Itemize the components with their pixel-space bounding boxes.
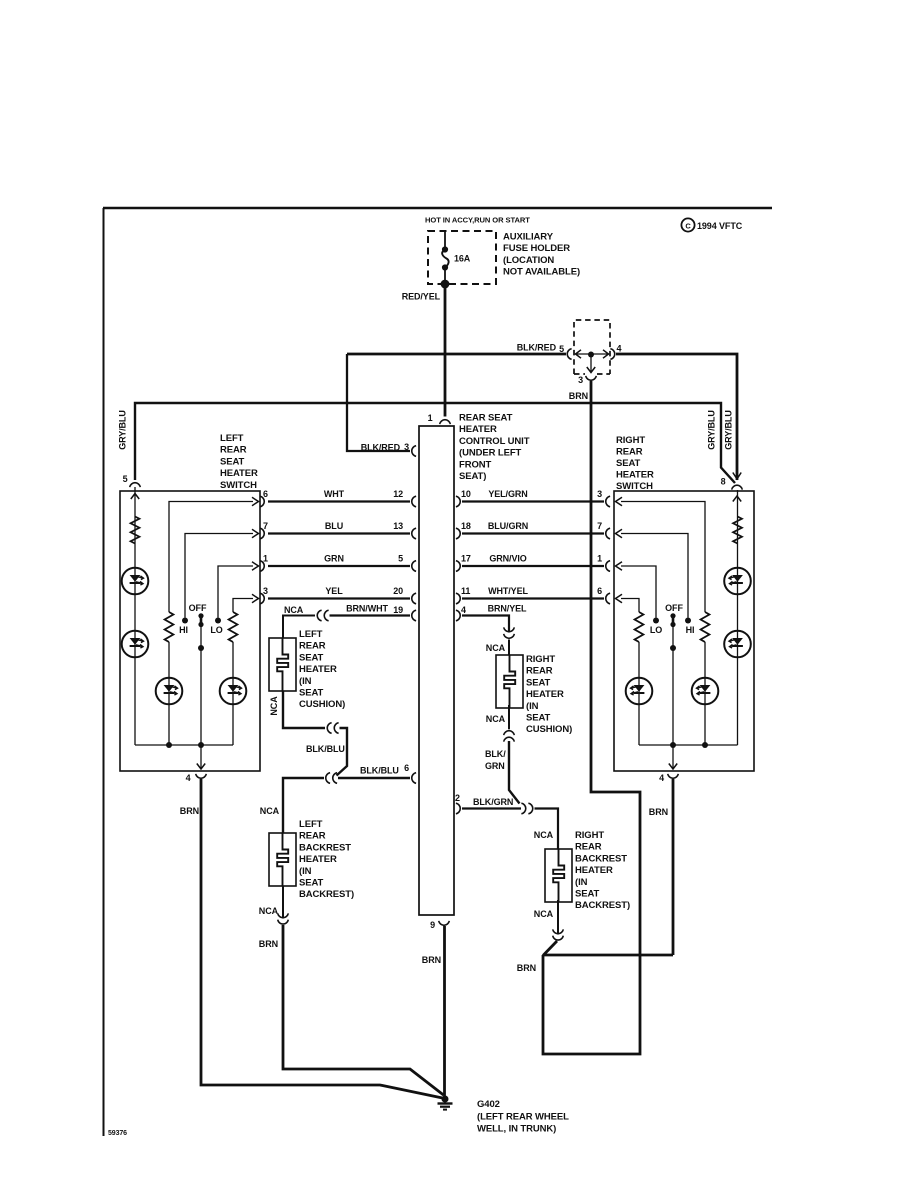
svg-text:18: 18 xyxy=(461,521,471,531)
resistor left switch HI branch xyxy=(165,612,174,642)
wire BRN diagonal to backrest connector xyxy=(543,941,557,956)
pigtail connector right backrest xyxy=(553,929,564,933)
right rear backrest heater box xyxy=(545,849,572,902)
svg-text:7: 7 xyxy=(597,521,602,531)
svg-text:BLK/BLU: BLK/BLU xyxy=(306,744,345,754)
svg-text:13: 13 xyxy=(393,521,403,531)
svg-text:BLK/RED: BLK/RED xyxy=(361,443,401,453)
left switch pin 4 exit xyxy=(200,745,202,769)
svg-text:NCA: NCA xyxy=(534,830,554,840)
right rear seat heater switch box xyxy=(614,491,754,771)
svg-text:NCA: NCA xyxy=(260,806,280,816)
svg-text:FRONT: FRONT xyxy=(459,459,492,470)
svg-text:RIGHT: RIGHT xyxy=(575,830,604,841)
svg-text:YEL: YEL xyxy=(325,586,343,596)
svg-text:OFF: OFF xyxy=(189,603,207,613)
svg-text:17: 17 xyxy=(461,554,471,564)
right switch branch wire lower xyxy=(621,599,639,613)
svg-text:REAR: REAR xyxy=(616,447,643,458)
svg-text:BRN: BRN xyxy=(517,963,536,973)
svg-text:BLK/BLU: BLK/BLU xyxy=(360,766,399,776)
fuse 16A xyxy=(444,231,446,249)
svg-text:CUSHION): CUSHION) xyxy=(526,724,572,735)
svg-text:12: 12 xyxy=(393,489,403,499)
svg-text:BRN: BRN xyxy=(649,807,668,817)
svg-text:3: 3 xyxy=(578,375,583,385)
svg-text:(UNDER LEFT: (UNDER LEFT xyxy=(459,448,522,459)
svg-text:GRY/BLU: GRY/BLU xyxy=(118,410,128,449)
wire BLK/RED vertical to pin 3 of control unit xyxy=(347,354,410,451)
wire WHT/YEL control unit pin 11 to right switch pin 6 xyxy=(462,597,604,599)
right switch OFF pole xyxy=(670,613,675,618)
svg-text:1: 1 xyxy=(597,554,602,564)
svg-text:SEAT: SEAT xyxy=(526,677,551,688)
svg-text:WHT: WHT xyxy=(324,489,345,499)
svg-text:(IN: (IN xyxy=(299,866,312,877)
wire GRN/VIO control unit pin 17 to right switch pin 1 xyxy=(462,565,604,567)
svg-text:LEFT: LEFT xyxy=(299,629,323,640)
svg-text:HEATER: HEATER xyxy=(299,664,337,675)
node LO contact xyxy=(215,618,221,624)
svg-text:HI: HI xyxy=(179,625,188,635)
wire GRY/BLU from left switch pin 5 across xyxy=(135,403,735,483)
svg-text:REAR SEAT: REAR SEAT xyxy=(459,413,513,424)
wire BRN horizontal to right switch pin 4 wire xyxy=(543,954,673,957)
wire corner to left backrest heater xyxy=(283,778,324,833)
wire below left backrest heater xyxy=(282,886,284,918)
svg-text:1994 VFTC: 1994 VFTC xyxy=(697,221,743,231)
svg-text:C: C xyxy=(685,222,691,231)
ground node G402 xyxy=(442,1096,449,1103)
junction node bus right A xyxy=(702,742,708,748)
wire NCA from left seat heater xyxy=(283,616,315,639)
svg-text:CONTROL UNIT: CONTROL UNIT xyxy=(459,436,530,447)
svg-text:BLK/GRN: BLK/GRN xyxy=(473,797,513,807)
border frame left edge xyxy=(103,208,105,1136)
svg-text:NCA: NCA xyxy=(486,643,506,653)
LED left switch main upper xyxy=(122,568,149,595)
left switch LO contact wire xyxy=(218,566,253,618)
wire BLU left switch pin 7 to control unit pin 13 xyxy=(268,532,410,534)
right switch branch wire upper xyxy=(621,502,705,613)
svg-text:G402: G402 xyxy=(477,1099,500,1110)
svg-text:REAR: REAR xyxy=(220,445,247,456)
in-line connector BRN/WHT xyxy=(317,610,321,621)
svg-text:6: 6 xyxy=(404,763,409,773)
LED right switch main lower xyxy=(724,631,751,658)
wire below branch B resistor xyxy=(638,642,640,745)
wire YEL left switch pin 3 to control unit pin 20 xyxy=(268,597,410,599)
svg-text:AUXILIARY: AUXILIARY xyxy=(503,232,554,243)
svg-text:(IN: (IN xyxy=(526,701,539,712)
border frame top edge xyxy=(103,207,772,209)
svg-text:BLK/RED: BLK/RED xyxy=(517,343,557,353)
svg-text:WHT/YEL: WHT/YEL xyxy=(488,586,528,596)
connector internal wire with arrows xyxy=(575,353,609,355)
pigtail connector right cushion xyxy=(504,627,515,631)
svg-text:5: 5 xyxy=(559,344,564,354)
wire GRY/BLU from connector pin 4 to right switch pin 8 xyxy=(616,354,737,480)
svg-text:BACKREST): BACKREST) xyxy=(299,889,354,900)
right switch HI contact wire xyxy=(621,534,688,618)
right rear seat heater box xyxy=(496,655,523,708)
svg-text:REAR: REAR xyxy=(299,641,326,652)
wire BLK/RED horizontal xyxy=(347,353,566,356)
copyright mark 1994 VFTC xyxy=(681,218,694,231)
svg-text:SEAT: SEAT xyxy=(299,652,324,663)
svg-text:GRY/BLU: GRY/BLU xyxy=(724,410,734,449)
in-line connector BLK/GRN xyxy=(521,803,525,814)
svg-text:HEATER: HEATER xyxy=(616,470,654,481)
LED right switch branch A xyxy=(692,678,719,705)
svg-text:HEATER: HEATER xyxy=(299,854,337,865)
wire BRN/WHT to control unit pin 19 xyxy=(330,614,411,616)
svg-text:20: 20 xyxy=(393,586,403,596)
svg-text:2: 2 xyxy=(455,793,460,803)
svg-text:YEL/GRN: YEL/GRN xyxy=(488,489,527,499)
resistor left switch LO branch xyxy=(229,612,238,642)
svg-text:LEFT: LEFT xyxy=(220,433,244,444)
resistor right switch branch B xyxy=(635,612,644,642)
svg-text:4: 4 xyxy=(461,605,466,615)
resistor right switch branch A xyxy=(701,612,710,642)
svg-text:REAR: REAR xyxy=(299,831,326,842)
svg-text:NCA: NCA xyxy=(269,696,279,716)
wire BLK/BLU to control unit pin 6 xyxy=(338,777,410,779)
svg-text:RED/YEL: RED/YEL xyxy=(402,292,441,302)
wire BLU/GRN control unit pin 18 to right switch pin 7 xyxy=(462,532,604,534)
junction node bus right B xyxy=(670,742,676,748)
svg-text:HEATER: HEATER xyxy=(575,865,613,876)
wire below right backrest heater xyxy=(557,900,559,934)
svg-text:RIGHT: RIGHT xyxy=(616,435,645,446)
svg-text:HEATER: HEATER xyxy=(459,424,497,435)
wire BLK/GRN to right backrest heater xyxy=(535,809,559,850)
svg-text:16A: 16A xyxy=(454,254,471,264)
svg-text:NCA: NCA xyxy=(284,605,304,615)
svg-text:8: 8 xyxy=(721,477,726,487)
svg-text:SEAT: SEAT xyxy=(220,456,245,467)
left rear backrest heater box xyxy=(269,833,296,886)
connector branch down to pin 3 xyxy=(590,354,592,373)
right switch LO contact wire xyxy=(621,566,656,618)
svg-text:NOT AVAILABLE): NOT AVAILABLE) xyxy=(503,267,580,278)
left switch main wire xyxy=(134,487,136,745)
wire GRN left switch pin 1 to control unit pin 5 xyxy=(268,565,410,567)
svg-text:BRN/YEL: BRN/YEL xyxy=(488,604,527,614)
svg-text:5: 5 xyxy=(123,474,128,484)
svg-text:3: 3 xyxy=(404,442,409,452)
svg-text:GRN/VIO: GRN/VIO xyxy=(489,554,526,564)
svg-text:FUSE HOLDER: FUSE HOLDER xyxy=(503,243,570,254)
wire BRN vertical bus xyxy=(543,381,640,1054)
control unit box xyxy=(419,426,454,915)
svg-text:REAR: REAR xyxy=(526,666,553,677)
svg-text:HOT IN ACCY,RUN OR START: HOT IN ACCY,RUN OR START xyxy=(425,216,530,225)
svg-text:BLK/: BLK/ xyxy=(485,749,506,759)
svg-text:BRN: BRN xyxy=(180,806,199,816)
LED left switch HI branch xyxy=(156,678,183,705)
svg-text:4: 4 xyxy=(659,773,664,783)
svg-text:BACKREST: BACKREST xyxy=(299,842,351,853)
wire BLK/BLU jog xyxy=(337,728,348,776)
in-line connector BLK/BLU lower xyxy=(326,773,330,784)
svg-text:SEAT): SEAT) xyxy=(459,471,486,482)
svg-text:9: 9 xyxy=(430,920,435,930)
wire NCA to right cushion heater xyxy=(508,640,510,656)
resistor right switch main xyxy=(733,517,742,544)
svg-text:BACKREST: BACKREST xyxy=(575,853,627,864)
wire BLK/GRN from right cushion xyxy=(509,741,520,804)
svg-text:SEAT: SEAT xyxy=(526,713,551,724)
junction node bus left A xyxy=(166,742,172,748)
wire WHT left switch pin 6 to control unit pin 12 xyxy=(268,500,410,502)
svg-text:(LEFT REAR WHEEL: (LEFT REAR WHEEL xyxy=(477,1112,569,1123)
svg-text:6: 6 xyxy=(597,586,602,596)
svg-text:(IN: (IN xyxy=(299,676,312,687)
node LO contact right xyxy=(653,618,659,624)
svg-text:(LOCATION: (LOCATION xyxy=(503,255,554,266)
junction node bus left B xyxy=(198,742,204,748)
fuse holder dashed box xyxy=(428,231,496,284)
in-line connector BLK/BLU upper xyxy=(327,723,331,734)
svg-text:HEATER: HEATER xyxy=(220,468,258,479)
left switch branch LO resistor wire xyxy=(233,599,253,613)
node HI contact right xyxy=(685,618,691,624)
svg-text:GRY/BLU: GRY/BLU xyxy=(707,410,717,449)
svg-text:GRN: GRN xyxy=(485,761,505,771)
wire below LO resistor xyxy=(232,642,234,745)
svg-text:NCA: NCA xyxy=(486,714,506,724)
svg-text:LO: LO xyxy=(650,625,662,635)
svg-text:BLU/GRN: BLU/GRN xyxy=(488,521,528,531)
svg-text:OFF: OFF xyxy=(665,603,683,613)
wire below HI resistor xyxy=(168,642,170,745)
left switch branch HI resistor wire xyxy=(169,502,253,613)
svg-text:SEAT: SEAT xyxy=(299,688,324,699)
left switch HI contact wire xyxy=(185,534,253,618)
left switch OFF pole xyxy=(198,613,203,618)
svg-text:1: 1 xyxy=(428,413,433,423)
svg-text:SEAT: SEAT xyxy=(299,878,324,889)
pigtail connector left backrest xyxy=(278,913,289,917)
svg-text:BACKREST): BACKREST) xyxy=(575,900,630,911)
svg-text:SEAT: SEAT xyxy=(616,458,641,469)
wire below branch A resistor xyxy=(704,642,706,745)
LED right switch branch B xyxy=(626,678,653,705)
svg-text:5: 5 xyxy=(398,554,403,564)
wire BRN control unit pin 9 to ground xyxy=(443,926,446,1096)
svg-text:BRN: BRN xyxy=(569,391,588,401)
svg-text:10: 10 xyxy=(461,489,471,499)
svg-text:SWITCH: SWITCH xyxy=(616,481,653,492)
svg-text:SEAT: SEAT xyxy=(575,889,600,900)
right switch main wire xyxy=(737,490,739,745)
in-line connector right cushion xyxy=(504,731,515,735)
svg-text:BRN: BRN xyxy=(422,955,441,965)
svg-text:4: 4 xyxy=(617,344,622,354)
wire YEL/GRN control unit pin 10 to right switch pin 3 xyxy=(462,500,604,502)
svg-text:BRN/WHT: BRN/WHT xyxy=(346,604,388,614)
right switch bottom bus xyxy=(639,744,738,746)
svg-text:NCA: NCA xyxy=(259,906,279,916)
svg-text:59376: 59376 xyxy=(108,1130,127,1137)
wire BRN right switch down xyxy=(672,779,675,955)
wire BRN left backrest to ground xyxy=(283,925,444,1095)
wire RED/YEL fuse to control unit pin 1 xyxy=(444,284,447,417)
wire BRN left switch to ground xyxy=(201,779,443,1098)
right switch pin 4 exit xyxy=(672,745,674,769)
svg-text:(IN: (IN xyxy=(575,877,588,888)
svg-text:RIGHT: RIGHT xyxy=(526,654,555,665)
junction node in connector xyxy=(588,352,594,358)
svg-text:REAR: REAR xyxy=(575,842,602,853)
svg-text:3: 3 xyxy=(597,489,602,499)
svg-text:19: 19 xyxy=(393,605,403,615)
wire BRN/YEL from pin 4 xyxy=(462,616,509,633)
svg-text:LEFT: LEFT xyxy=(299,819,323,830)
wire from left cushion heater xyxy=(283,691,325,728)
LED right switch main upper xyxy=(724,568,751,595)
svg-text:4: 4 xyxy=(186,773,191,783)
svg-text:GRN: GRN xyxy=(324,554,344,564)
svg-text:BRN: BRN xyxy=(259,939,278,949)
left rear seat heater switch box xyxy=(120,491,260,771)
svg-text:HI: HI xyxy=(686,625,695,635)
svg-text:NCA: NCA xyxy=(534,909,554,919)
resistor left switch main xyxy=(131,517,140,544)
wire BLK/GRN from pin 2 xyxy=(462,807,521,809)
svg-text:HEATER: HEATER xyxy=(526,689,564,700)
svg-text:BLU: BLU xyxy=(325,521,343,531)
in-line connector dashed box xyxy=(574,320,610,374)
svg-text:CUSHION): CUSHION) xyxy=(299,699,345,710)
wire below right cushion heater xyxy=(508,705,510,729)
svg-text:11: 11 xyxy=(461,586,470,596)
svg-text:WELL, IN TRUNK): WELL, IN TRUNK) xyxy=(477,1124,556,1135)
svg-text:LO: LO xyxy=(210,625,222,635)
left rear seat heater box xyxy=(269,638,296,691)
node HI contact xyxy=(182,618,188,624)
left switch bottom bus xyxy=(135,744,233,746)
LED left switch LO branch xyxy=(220,678,247,705)
svg-text:SWITCH: SWITCH xyxy=(220,480,257,491)
connector pin 4 xyxy=(610,349,614,360)
LED left switch main lower xyxy=(122,631,149,658)
